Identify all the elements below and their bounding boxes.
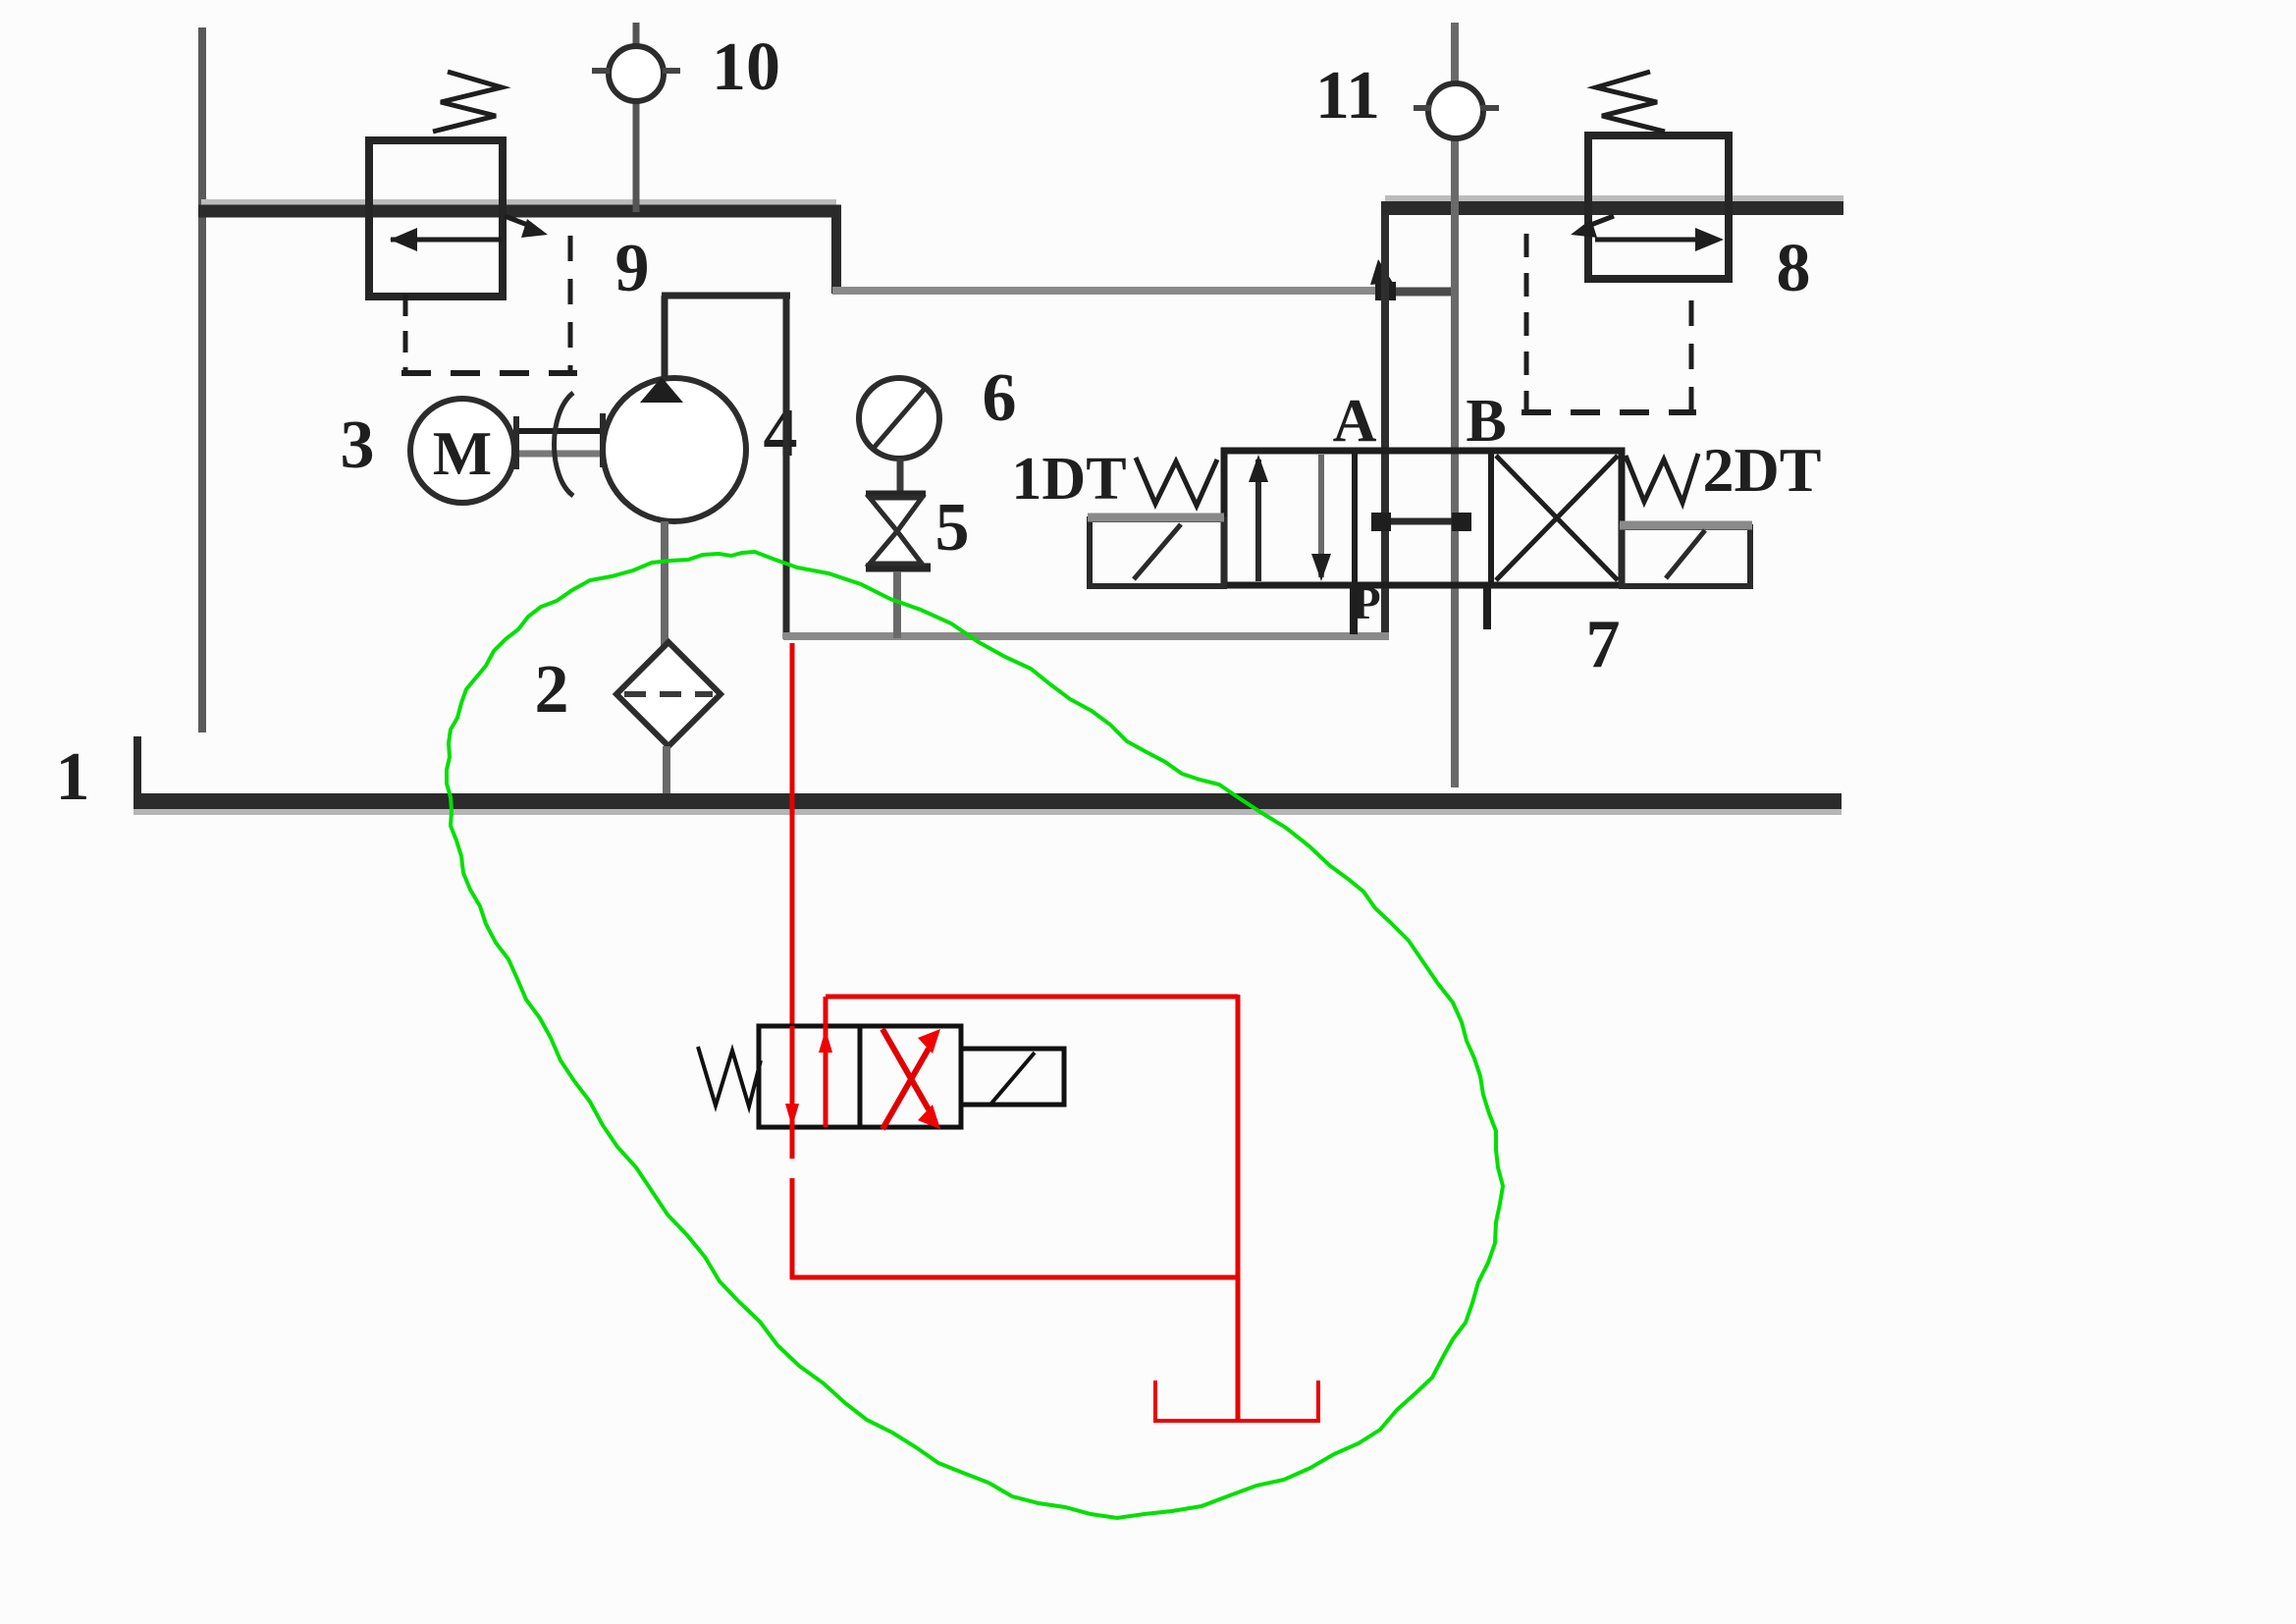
wire: pump inlet vertical — [661, 521, 668, 646]
tank line 1 — [133, 736, 1842, 812]
valve 7 left position arrows — [1249, 455, 1331, 581]
svg-text:11: 11 — [1315, 58, 1380, 134]
check valve 10 — [592, 23, 680, 212]
solenoid 1DT box — [1088, 517, 1224, 586]
relief valve 8 — [1522, 72, 1729, 412]
valve 7 crossed position — [1496, 456, 1618, 580]
svg-text:A: A — [1333, 388, 1377, 455]
wire: top-left main horizontal — [198, 205, 841, 218]
tank symbol (red) — [1153, 1380, 1320, 1423]
svg-text:4: 4 — [764, 396, 798, 471]
wire (red): tap from pressure line down to added valve — [790, 643, 795, 1026]
wire: B/tank vertical through valve — [1451, 23, 1459, 787]
shaft coupling — [514, 393, 605, 496]
svg-text:B: B — [1466, 388, 1506, 455]
filter 2 — [616, 642, 721, 797]
solenoid 2DT box — [1620, 525, 1752, 586]
svg-text:2: 2 — [535, 652, 569, 728]
spring left of valve 7 — [1136, 458, 1217, 506]
svg-text:1DT: 1DT — [1011, 446, 1126, 513]
pump 4 — [603, 296, 746, 521]
shut-off valve 5 — [866, 494, 931, 638]
svg-text:3: 3 — [341, 407, 375, 483]
svg-text:7: 7 — [1586, 607, 1621, 682]
valve 7 centre position bar — [1371, 513, 1471, 531]
svg-text:2DT: 2DT — [1703, 435, 1822, 505]
svg-text:6: 6 — [983, 360, 1017, 436]
wire (red): right vertical to tank — [1236, 995, 1241, 1421]
wire: top-right main horizontal — [1381, 201, 1843, 215]
wire: pump outlet top horizontal — [662, 293, 790, 299]
GREEN-LOOP — [447, 552, 1503, 1518]
motor 3 — [410, 399, 514, 503]
wire: top-left main horizontal (light edge) — [201, 199, 836, 205]
pressure gauge 6 — [859, 378, 939, 493]
red up-arrow line in left square — [819, 997, 832, 1127]
relief valve 9 — [369, 72, 577, 375]
wire: A-port vertical line — [1381, 205, 1389, 636]
highlight loop (green freehand ellipse) — [447, 552, 1503, 1518]
red crossed arrows in right square — [882, 1029, 940, 1129]
wire: outlet right vertical — [783, 293, 790, 639]
svg-text:P: P — [1352, 577, 1380, 629]
wire: left tank return vertical — [198, 27, 206, 732]
spring right of valve 7 — [1626, 454, 1698, 503]
wire: step-down vertical — [831, 205, 841, 294]
wire (red): bottom horizontal — [790, 1275, 1240, 1280]
valve 7 port stubs — [1354, 585, 1487, 634]
BLACK-CIRCUIT — [56, 23, 1844, 815]
spring of added valve — [698, 1047, 761, 1107]
wire (red): top link horizontal — [826, 995, 1238, 1000]
red down-arrow in left square — [785, 1026, 799, 1159]
check valve 11 — [1414, 83, 1499, 138]
svg-text:10: 10 — [712, 29, 780, 105]
svg-text:9: 9 — [615, 231, 650, 306]
wire (red): left vertical below valve — [790, 1178, 795, 1279]
wire: pressure line to P port — [783, 632, 1389, 640]
directional valve 7 body — [1224, 451, 1622, 585]
svg-text:M: M — [433, 418, 492, 488]
svg-text:5: 5 — [935, 490, 970, 566]
added 2-position solenoid valve body — [759, 1026, 961, 1127]
wire: top-right main horizontal (light edge) — [1385, 195, 1843, 201]
svg-text:8: 8 — [1777, 231, 1811, 306]
node: junction at A-line crossing — [1375, 282, 1396, 300]
solenoid of added valve — [961, 1049, 1064, 1106]
svg-text:1: 1 — [56, 739, 90, 815]
RED-ADDITION — [698, 643, 1320, 1423]
wire: middle horizontal to valve B side — [832, 287, 1387, 295]
